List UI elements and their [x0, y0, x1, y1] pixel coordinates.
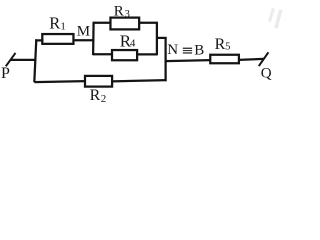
wire top branch to R1 [35, 39, 43, 41]
svg-text:1: 1 [60, 21, 66, 33]
svg-text:3: 3 [125, 9, 130, 20]
resistor R1 [42, 34, 73, 44]
wire M (R1 to parallel block) [74, 39, 95, 41]
svg-text:Q: Q [261, 65, 272, 81]
wire right bar to node N [157, 37, 167, 39]
identity sign [183, 48, 192, 54]
wire node N vertical [164, 37, 166, 81]
wire P to left junction [11, 59, 37, 61]
wire bottom branch left [34, 81, 85, 82]
svg-text:N: N [167, 42, 178, 58]
svg-text:M: M [77, 24, 90, 40]
wire stub to R4 [93, 53, 112, 55]
svg-text:B: B [194, 43, 204, 59]
wire R4 to right bar [137, 53, 157, 55]
svg-text:R: R [49, 14, 60, 33]
svg-text:2: 2 [101, 93, 107, 105]
svg-text:R: R [114, 3, 124, 19]
watermark stroke left [270, 8, 274, 21]
wire node N to R5 [166, 60, 211, 61]
svg-text:R: R [90, 87, 101, 104]
terminal P slash [6, 53, 16, 66]
wire R2 to node N [112, 80, 167, 81]
wire left vertical [34, 39, 36, 82]
svg-text:P: P [1, 65, 10, 82]
svg-text:4: 4 [130, 38, 136, 50]
wire right bar of parallel block [156, 22, 158, 55]
wire R3 to right bar [139, 22, 157, 24]
resistor R4 [112, 50, 137, 60]
terminal Q slash [259, 52, 269, 66]
resistor R3 [110, 18, 139, 30]
wire stub to R3 [93, 22, 111, 24]
wire left bar of parallel block [92, 22, 95, 55]
watermark stroke right [276, 10, 281, 28]
svg-text:R: R [215, 36, 226, 53]
resistor R5 [210, 55, 239, 64]
svg-text:5: 5 [225, 42, 230, 53]
wire R5 to Q [239, 59, 264, 60]
resistor R2 [85, 76, 112, 87]
